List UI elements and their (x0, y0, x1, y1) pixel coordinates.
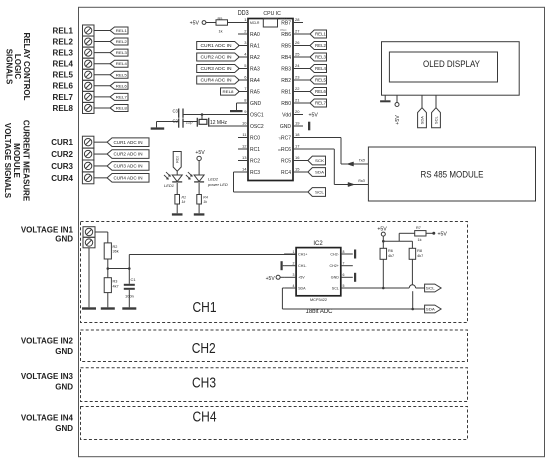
svg-text:+5V: +5V (266, 276, 276, 282)
svg-text:RB3: RB3 (281, 66, 291, 72)
svg-text:CH3: CH3 (192, 375, 216, 392)
svg-text:PGD: PGD (280, 16, 286, 20)
svg-text:RC6: RC6 (281, 147, 291, 153)
svg-text:CUR2 ADC IN: CUR2 ADC IN (114, 152, 143, 157)
svg-text:R2: R2 (113, 245, 118, 249)
svg-text:1k: 1k (182, 200, 186, 204)
svg-text:REL8: REL8 (53, 104, 74, 113)
svg-text:PGC: PGC (280, 28, 286, 32)
svg-text:R6: R6 (388, 249, 393, 253)
svg-text:CPU IC: CPU IC (263, 11, 281, 17)
svg-text:RC0: RC0 (250, 135, 260, 141)
svg-text:CUR4: CUR4 (51, 174, 73, 183)
svg-text:SIGNALS: SIGNALS (5, 49, 14, 85)
svg-text:VOLTAGE IN2: VOLTAGE IN2 (21, 337, 74, 346)
svg-text:RS 485 MODULE: RS 485 MODULE (421, 170, 484, 181)
svg-text:IC2: IC2 (313, 241, 323, 247)
svg-text:16: 16 (295, 155, 300, 160)
svg-text:+5V: +5V (377, 227, 387, 233)
svg-text:REL2: REL2 (53, 37, 74, 46)
svg-text:CH1+: CH1+ (298, 252, 307, 256)
svg-text:REL6: REL6 (315, 89, 327, 94)
svg-text:Vdd: Vdd (282, 112, 291, 118)
svg-text:CH4: CH4 (193, 409, 217, 426)
svg-text:REL3: REL3 (53, 49, 74, 58)
svg-text:R5: R5 (218, 17, 223, 21)
svg-text:RB4: RB4 (281, 55, 291, 61)
svg-text:REL5: REL5 (116, 72, 128, 77)
svg-text:CUR3 ADC IN: CUR3 ADC IN (114, 164, 143, 169)
svg-text:SCL: SCL (332, 286, 339, 290)
svg-text:LED1: LED1 (164, 183, 174, 188)
svg-text:R1: R1 (182, 195, 187, 199)
svg-text:REL6: REL6 (53, 82, 74, 91)
svg-text:19: 19 (295, 121, 300, 126)
svg-text:SCL: SCL (315, 191, 324, 195)
svg-text:RX: RX (278, 148, 282, 152)
svg-text:CUR3 ADC IN: CUR3 ADC IN (201, 66, 232, 71)
svg-text:24: 24 (295, 63, 300, 68)
svg-text:CUR3: CUR3 (51, 162, 73, 171)
svg-text:23: 23 (295, 75, 300, 80)
svg-text:RxD: RxD (358, 179, 365, 183)
svg-text:R7: R7 (416, 226, 421, 230)
svg-text:MCLR: MCLR (250, 21, 260, 25)
svg-text:RB2: RB2 (281, 78, 291, 84)
svg-text:REL1: REL1 (116, 28, 128, 33)
svg-text:DD3: DD3 (238, 10, 249, 17)
svg-text:REL8: REL8 (223, 89, 235, 94)
svg-text:TxD: TxD (359, 159, 366, 163)
svg-text:4k7: 4k7 (113, 284, 119, 288)
svg-text:RB5: RB5 (281, 43, 291, 49)
svg-text:CUR2: CUR2 (51, 150, 73, 159)
svg-text:R4: R4 (203, 195, 208, 199)
svg-text:SCL: SCL (434, 116, 439, 125)
svg-text:+5V: +5V (395, 115, 401, 125)
svg-text:2: 2 (293, 262, 295, 266)
svg-text:MODULE: MODULE (12, 143, 21, 178)
svg-text:6: 6 (343, 273, 345, 277)
svg-text:power LED: power LED (207, 182, 228, 187)
svg-text:VOLTAGE IN1: VOLTAGE IN1 (21, 226, 74, 235)
svg-text:CH1: CH1 (193, 299, 217, 316)
svg-text:17: 17 (295, 144, 300, 149)
svg-text:REL8: REL8 (116, 105, 128, 110)
svg-text:OSC1: OSC1 (250, 112, 264, 118)
svg-text:CURRENT MEASURE: CURRENT MEASURE (21, 120, 30, 202)
svg-text:+5V: +5V (190, 21, 200, 27)
svg-text:RC2: RC2 (250, 158, 260, 164)
svg-text:22p: 22p (186, 119, 193, 124)
svg-text:CUR1: CUR1 (51, 138, 73, 147)
svg-text:1k: 1k (219, 29, 223, 33)
svg-text:REL5: REL5 (53, 71, 74, 80)
svg-text:CH1-: CH1- (298, 264, 307, 268)
svg-text:SDA: SDA (298, 286, 306, 290)
svg-text:CUR2 ADC IN: CUR2 ADC IN (201, 55, 232, 60)
svg-text:RA2: RA2 (250, 55, 260, 61)
svg-text:21: 21 (295, 98, 300, 103)
svg-text:RA0: RA0 (250, 32, 260, 38)
svg-text:RC7: RC7 (281, 135, 291, 141)
svg-text:RC3: RC3 (250, 170, 260, 176)
svg-text:8: 8 (343, 250, 345, 254)
svg-text:15: 15 (295, 167, 300, 172)
svg-text:100n: 100n (125, 293, 134, 298)
svg-text:RC1: RC1 (250, 147, 260, 153)
svg-text:4k7: 4k7 (388, 254, 394, 258)
svg-text:VOLTAGE IN4: VOLTAGE IN4 (21, 414, 74, 423)
svg-text:GND: GND (55, 234, 73, 243)
svg-text:CUR1 ADC IN: CUR1 ADC IN (114, 140, 143, 145)
svg-text:REL7: REL7 (116, 94, 128, 99)
svg-text:CUR4 ADC IN: CUR4 ADC IN (114, 175, 143, 180)
svg-text:+5V: +5V (195, 150, 205, 156)
svg-text:VOLTAGE IN3: VOLTAGE IN3 (21, 372, 74, 381)
svg-text:REL7: REL7 (53, 93, 74, 102)
svg-text:3: 3 (293, 273, 295, 277)
svg-text:REL5: REL5 (315, 78, 327, 83)
svg-text:RC0: RC0 (176, 156, 180, 163)
svg-text:CH2: CH2 (192, 340, 216, 357)
svg-text:28: 28 (295, 17, 300, 22)
svg-text:REL4: REL4 (53, 60, 74, 69)
svg-text:GND: GND (55, 347, 73, 356)
svg-text:RA1: RA1 (250, 43, 260, 49)
svg-text:SDA: SDA (420, 116, 425, 125)
svg-text:7: 7 (343, 262, 345, 266)
svg-text:12: 12 (242, 144, 247, 149)
svg-text:GND: GND (250, 101, 262, 107)
svg-text:5: 5 (343, 284, 345, 288)
svg-text:REL2: REL2 (315, 43, 327, 48)
svg-text:1: 1 (293, 250, 295, 254)
svg-text:18: 18 (295, 132, 300, 137)
svg-text:RB6: RB6 (281, 32, 291, 38)
svg-text:RA3: RA3 (250, 66, 260, 72)
svg-text:CH2+: CH2+ (330, 264, 339, 268)
svg-text:R8: R8 (417, 249, 422, 253)
svg-text:4: 4 (293, 284, 295, 288)
svg-text:20: 20 (295, 109, 300, 114)
svg-text:TX: TX (278, 136, 282, 140)
svg-text:R3: R3 (113, 280, 118, 284)
svg-text:SCL: SCL (426, 287, 435, 291)
svg-text:+5V: +5V (438, 231, 448, 237)
svg-text:4k7: 4k7 (417, 254, 423, 258)
svg-text:REL3: REL3 (116, 50, 128, 55)
svg-text:14: 14 (242, 167, 247, 172)
svg-text:SDA: SDA (426, 308, 436, 312)
svg-text:13: 13 (242, 155, 247, 160)
svg-text:C2: C2 (172, 118, 178, 123)
svg-text:12 MHz: 12 MHz (210, 120, 227, 126)
svg-text:SDA: SDA (315, 171, 325, 175)
svg-text:REL4: REL4 (116, 61, 128, 66)
svg-text:36k: 36k (113, 250, 119, 254)
svg-text:RC4: RC4 (281, 170, 291, 176)
svg-text:CUR4 ADC IN: CUR4 ADC IN (201, 78, 232, 83)
svg-text:RC5: RC5 (281, 158, 291, 164)
svg-text:GND: GND (55, 383, 73, 392)
svg-text:C1: C1 (131, 277, 137, 282)
svg-text:MCP3422: MCP3422 (310, 297, 328, 302)
svg-text:REL6: REL6 (116, 83, 128, 88)
svg-text:SCK: SCK (315, 159, 325, 163)
svg-text:GND: GND (280, 124, 292, 130)
svg-text:REL1: REL1 (53, 26, 74, 35)
svg-text:OSC2: OSC2 (250, 124, 264, 130)
svg-text:GND: GND (55, 424, 73, 433)
svg-text:REL3: REL3 (315, 55, 327, 60)
svg-text:REL2: REL2 (116, 39, 128, 44)
svg-text:+5V: +5V (298, 276, 305, 280)
svg-text:RA4: RA4 (250, 78, 260, 84)
svg-text:10: 10 (242, 121, 247, 126)
svg-text:C3: C3 (172, 109, 178, 114)
svg-text:22: 22 (295, 86, 300, 91)
svg-text:GND: GND (331, 276, 339, 280)
svg-text:1k: 1k (203, 200, 207, 204)
svg-text:RB7: RB7 (281, 20, 291, 26)
svg-text:+5V: +5V (309, 113, 319, 119)
svg-text:26: 26 (295, 40, 300, 45)
svg-text:25: 25 (295, 52, 300, 57)
svg-text:27: 27 (295, 29, 300, 34)
svg-text:RB1: RB1 (281, 89, 291, 95)
svg-text:VOLTAGE SIGNALS: VOLTAGE SIGNALS (3, 123, 12, 199)
svg-text:OLED DISPLAY: OLED DISPLAY (423, 59, 481, 70)
svg-text:LED2: LED2 (208, 177, 219, 182)
svg-text:REL4: REL4 (315, 66, 327, 71)
svg-text:1k: 1k (418, 238, 422, 242)
svg-text:RB0: RB0 (281, 101, 291, 107)
svg-text:REL7: REL7 (315, 101, 327, 106)
svg-text:CUR1 ADC IN: CUR1 ADC IN (201, 43, 232, 48)
svg-text:RA5: RA5 (250, 89, 260, 95)
svg-text:REL1: REL1 (315, 32, 327, 37)
svg-text:CH2-: CH2- (330, 252, 339, 256)
